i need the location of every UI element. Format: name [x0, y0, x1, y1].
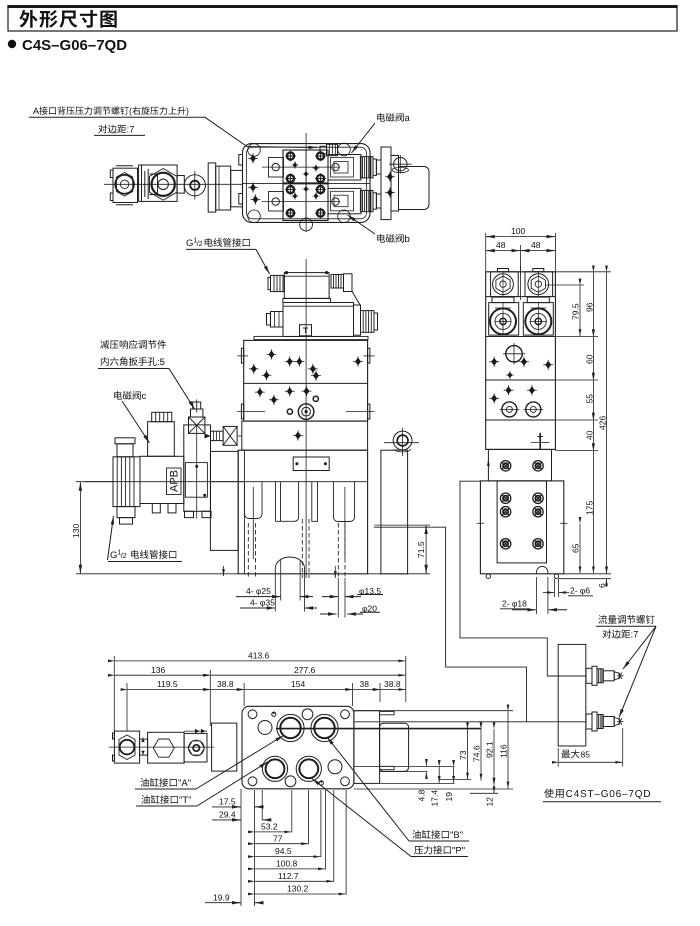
dim phi20 — [362, 604, 377, 614]
centerline — [109, 746, 214, 748]
label solenoid c — [114, 391, 146, 400]
svg-text:38.8: 38.8 — [217, 679, 234, 689]
dim 6 feet — [559, 578, 611, 580]
side ticks — [477, 522, 484, 524]
main body outline — [243, 144, 371, 223]
connector upper screw (from side view neck level) — [460, 481, 586, 676]
svg-text:2- φ18: 2- φ18 — [502, 599, 527, 609]
band3 port — [506, 346, 522, 362]
right step — [344, 292, 361, 306]
svg-text:136: 136 — [151, 665, 165, 675]
port A — [277, 714, 304, 741]
label T — [141, 795, 191, 804]
small up arrow on neck — [487, 459, 489, 468]
dim 100.8 — [276, 859, 298, 869]
side tabs with ticks — [241, 348, 243, 363]
dim 112.7 — [278, 871, 299, 881]
axis centerline — [84, 481, 244, 483]
flow screw upper — [586, 666, 624, 685]
dim 92.1 — [493, 729, 495, 785]
left nut — [271, 312, 284, 328]
svg-text:19.9: 19.9 — [213, 892, 230, 902]
header box — [8, 6, 677, 31]
band2 caps — [492, 297, 514, 303]
svg-text:112.7: 112.7 — [278, 871, 299, 881]
row centerline b — [262, 201, 340, 203]
label G1/2 conduit port — [186, 238, 250, 250]
adapter plate — [212, 723, 237, 771]
right small screw — [211, 431, 224, 440]
port bottom mid — [296, 756, 321, 781]
svg-text:2- φ6: 2- φ6 — [570, 586, 590, 596]
central bolt plate — [283, 150, 328, 221]
X-box right — [223, 426, 237, 445]
dim 65 — [579, 524, 581, 574]
adapter plates — [208, 163, 216, 212]
bottom boss — [300, 218, 313, 231]
right refs horizontals — [354, 710, 513, 712]
dim max 85 — [557, 748, 559, 767]
top hex bolts — [493, 274, 514, 295]
dim 74.6 — [480, 729, 482, 781]
main plate — [242, 706, 354, 789]
right plate — [381, 147, 391, 220]
svg-text:100.8: 100.8 — [276, 859, 298, 869]
center port boss — [298, 404, 314, 420]
dim 29.4 — [219, 810, 236, 820]
armature ribs right — [331, 275, 344, 289]
svg-text:48: 48 — [496, 240, 506, 250]
svg-text:154: 154 — [291, 679, 305, 689]
hidden hole lines — [248, 519, 345, 578]
svg-text:100: 100 — [511, 226, 525, 236]
svg-text:G: G — [110, 550, 117, 561]
right sub block — [354, 711, 380, 784]
solenoid b ribs — [360, 190, 373, 211]
conduit lower — [117, 507, 135, 518]
svg-text:119.5: 119.5 — [157, 679, 178, 689]
tiny holes — [272, 712, 276, 716]
small port upper right — [313, 396, 318, 401]
coil c feet — [152, 504, 160, 513]
dim 413.6 — [113, 656, 115, 731]
band5 pin — [539, 433, 541, 450]
dim 4-phi35 — [250, 598, 275, 608]
dim 4.8 — [425, 759, 427, 766]
dim 17.5 — [219, 797, 236, 807]
plate bolts — [285, 151, 296, 162]
dim 53.2 — [261, 822, 278, 832]
lower body left extension — [210, 451, 238, 550]
port top right — [311, 714, 338, 741]
dim 130.2 — [287, 884, 309, 894]
reducing valve body — [184, 425, 211, 511]
band2 squares — [489, 303, 519, 336]
svg-text:4- φ25: 4- φ25 — [246, 586, 271, 596]
left diamonds — [248, 153, 258, 163]
svg-text:77: 77 — [273, 833, 283, 843]
feet — [486, 574, 490, 578]
svg-text:6: 6 — [597, 583, 607, 588]
row centerline a — [262, 166, 340, 168]
dim 12 — [493, 785, 495, 793]
solenoid a body — [328, 155, 361, 181]
corner holes — [248, 710, 257, 719]
bottom refs verticals — [240, 789, 242, 906]
dim 71.5 — [416, 541, 426, 558]
svg-text:19: 19 — [444, 792, 454, 802]
label flow adjust screw — [598, 615, 654, 638]
dim 55 — [555, 419, 598, 421]
connector port line to lower screw — [354, 721, 586, 723]
coupling — [177, 176, 184, 194]
dim 119.5 / 38.8 / 154 / 38 / 38.8 — [126, 683, 128, 731]
svg-text:12: 12 — [485, 797, 495, 807]
svg-text:38.8: 38.8 — [384, 679, 401, 689]
model bullet — [8, 40, 16, 48]
connector lower screw (from front view) — [374, 527, 527, 722]
svg-text:55: 55 — [585, 394, 595, 404]
dim 17.4 — [438, 767, 440, 783]
band4 diamonds — [504, 385, 514, 395]
flow screw lower — [586, 712, 624, 731]
dim 130 — [71, 524, 81, 538]
coil upper — [284, 273, 329, 299]
dim extension verticals below body — [275, 574, 345, 618]
small holes — [302, 709, 313, 720]
solenoid tops — [491, 272, 519, 297]
small plates around white circles — [269, 158, 284, 178]
solenoid c upper body — [148, 422, 175, 457]
svg-text:/2: /2 — [121, 553, 127, 560]
dim 60 — [555, 379, 598, 381]
dim 19 — [453, 767, 455, 783]
corner bosses — [248, 144, 261, 157]
body outline — [486, 272, 556, 450]
svg-text:G: G — [186, 238, 193, 249]
third block with port — [184, 733, 207, 762]
dim 19.9 — [213, 892, 230, 902]
label G1/2 conduit — [110, 550, 176, 562]
idler circle — [184, 175, 205, 196]
coil flange — [283, 298, 331, 302]
tiny down arrows at bottom — [223, 566, 225, 576]
junction rectangle with dots — [293, 457, 329, 471]
solenoid main body — [283, 303, 354, 337]
center square nameplate — [300, 325, 312, 336]
label B — [412, 830, 462, 839]
dim 100 — [485, 233, 487, 272]
svg-text:94.5: 94.5 — [275, 846, 292, 856]
left attachment: end block — [114, 731, 139, 763]
dim 2-phi18 — [535, 577, 537, 614]
port T (bottom left) — [262, 756, 287, 781]
end block 1 — [113, 168, 138, 202]
lower body — [238, 450, 367, 574]
svg-text:73: 73 — [458, 750, 468, 760]
dim 426 — [606, 272, 608, 573]
solenoid a ribs — [360, 157, 373, 178]
svg-text:175: 175 — [585, 501, 595, 515]
svg-text:426: 426 — [598, 416, 608, 430]
dim 2-phi6 — [570, 586, 590, 596]
label pressure-reducing adjuster — [100, 340, 166, 366]
svg-text:40: 40 — [585, 430, 595, 440]
bottom arch — [275, 557, 304, 574]
dim phi13.5 — [359, 586, 381, 596]
conduit ribbed block — [113, 457, 140, 507]
dim 175 — [564, 573, 611, 575]
svg-text:APB: APB — [169, 470, 181, 492]
dim 79.5 — [545, 284, 584, 286]
bottom arch phi18 — [536, 566, 548, 573]
label: A-port backpressure adjust screw — [33, 106, 188, 133]
svg-text:130.2: 130.2 — [287, 884, 309, 894]
svg-text:17.5: 17.5 — [219, 797, 236, 807]
backpressure screw detail — [320, 146, 327, 153]
dim 136 / 277.6 — [209, 670, 211, 726]
svg-text:48: 48 — [531, 240, 541, 250]
header title — [19, 10, 116, 28]
neck block — [488, 449, 551, 481]
dim 73 — [467, 729, 469, 779]
svg-text:38: 38 — [360, 679, 370, 689]
dim 48 48 — [519, 245, 521, 275]
right ribbed end — [361, 311, 375, 333]
right bracket — [391, 156, 399, 212]
right end plate — [354, 305, 361, 335]
vertical centerline — [305, 259, 307, 578]
lower block bolts — [500, 493, 510, 503]
block bolts (diamonds) — [267, 349, 277, 359]
dim 96 — [555, 271, 611, 273]
terminal block — [376, 160, 381, 174]
dim 4-phi25 — [246, 586, 271, 596]
svg-text:17.4: 17.4 — [430, 790, 440, 807]
coupling with arrows — [140, 739, 148, 755]
dim 77 — [273, 833, 283, 843]
lower wide block — [480, 481, 563, 574]
reducing valve feet — [185, 511, 212, 517]
svg-text:130: 130 — [71, 524, 81, 538]
dim 116 — [507, 711, 509, 788]
svg-text:277.6: 277.6 — [294, 665, 316, 675]
band4 bolts — [502, 402, 517, 417]
legs and slots — [245, 482, 263, 519]
conduit block cap — [115, 438, 135, 444]
svg-text:71.5: 71.5 — [416, 541, 426, 558]
svg-text:C4S–G06–7QD: C4S–G06–7QD — [22, 37, 127, 54]
band2 big bolts — [490, 308, 516, 334]
mid block with hex plug — [148, 732, 185, 763]
band3 diamonds — [489, 357, 499, 367]
main block — [244, 340, 368, 421]
solenoid b body — [328, 188, 361, 213]
svg-text:74.6: 74.6 — [472, 745, 482, 762]
APB tag — [167, 468, 182, 495]
coil body c — [140, 456, 184, 503]
svg-text:53.2: 53.2 — [261, 822, 278, 832]
detail box — [558, 644, 586, 746]
label P — [414, 846, 464, 855]
left tabs — [239, 155, 243, 166]
base plate — [254, 336, 368, 339]
svg-text:85: 85 — [581, 750, 591, 760]
svg-text:4- φ35: 4- φ35 — [250, 598, 275, 608]
dim 40 — [555, 450, 598, 452]
bracket diamonds — [385, 172, 395, 182]
svg-text:116: 116 — [499, 744, 509, 758]
medium holes — [258, 721, 272, 735]
body mid divider — [243, 182, 371, 184]
dim 94.5 — [275, 846, 292, 856]
plate small diamonds — [291, 161, 319, 200]
adjust screw on top — [196, 400, 198, 413]
end block 2 — [139, 165, 178, 201]
bracket crosshair — [394, 158, 407, 171]
svg-text:79.5: 79.5 — [571, 303, 581, 320]
X-box under screw — [189, 417, 205, 433]
svg-text:/2: /2 — [197, 241, 203, 248]
svg-text:96: 96 — [585, 302, 595, 312]
leader to screw — [205, 117, 317, 147]
middle section — [242, 421, 368, 450]
svg-text:29.4: 29.4 — [219, 810, 236, 820]
label solenoid b — [377, 234, 409, 243]
svg-text:413.6: 413.6 — [248, 651, 270, 661]
svg-text:92.1: 92.1 — [485, 741, 495, 758]
side port boss right — [381, 450, 408, 574]
svg-text:60: 60 — [585, 354, 595, 364]
chain centerline — [104, 183, 243, 185]
svg-text:65: 65 — [571, 543, 581, 553]
svg-text:4.8: 4.8 — [417, 789, 427, 801]
usage note — [544, 789, 650, 799]
flow arrow on block3 — [184, 730, 207, 732]
label A — [140, 778, 190, 787]
conduit box (striped) — [271, 275, 285, 291]
small port left — [287, 409, 292, 414]
main centerline — [305, 133, 307, 232]
label solenoid a — [377, 113, 410, 122]
